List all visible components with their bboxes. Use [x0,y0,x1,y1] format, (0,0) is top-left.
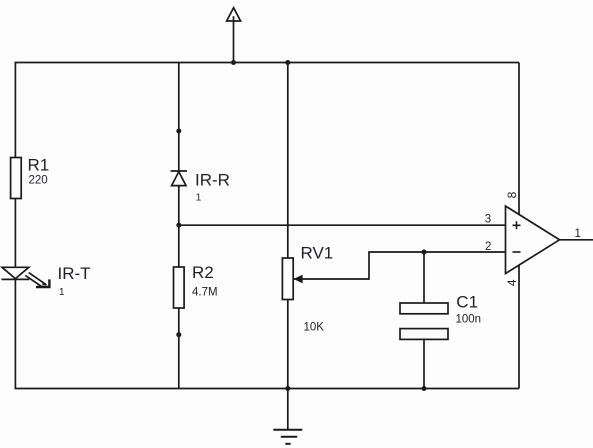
svg-text:C1: C1 [456,292,478,311]
junction dot noninverting node [176,223,181,228]
wire IR-R R2 branch [178,63,180,389]
wire RV1 ground branch [287,63,289,389]
op-amp minus sign [513,251,521,253]
svg-text:8: 8 [505,191,519,198]
svg-text:4: 4 [505,279,519,286]
op-amp U1 body [506,206,560,274]
junction dot ground bottom rail [285,386,290,391]
wire C1 bottom lead [423,339,425,389]
wire RV1 wiper horizontal [293,278,369,280]
potentiometer RV1 body [282,258,293,300]
svg-text:R1: R1 [28,155,50,174]
resistor R1 [11,158,22,199]
svg-text:3: 3 [485,214,491,226]
wire bottom rail [15,388,519,390]
resistor R2 [174,267,185,308]
svg-text:IR-T: IR-T [58,264,91,283]
wire noninverting input to pin 3 [179,224,506,226]
svg-text:1: 1 [59,287,65,298]
wire left rail [14,62,16,389]
LED IR-T emission arrow lower [25,275,41,286]
svg-text:R2: R2 [192,263,214,282]
ground bar 1 [273,429,302,431]
potentiometer RV1 wiper arrowhead [294,275,303,284]
svg-text:2: 2 [485,241,491,253]
capacitor C1 bottom plate [400,329,448,340]
op-amp plus sign [513,221,521,229]
svg-text:10K: 10K [304,322,325,334]
diode IR-R cathode bar [171,170,187,172]
wire C1 top lead [423,252,425,304]
capacitor C1 top plate [400,303,448,314]
junction dot C1 bottom rail [422,386,427,391]
junction dot inverting node [422,250,427,255]
svg-text:RV1: RV1 [301,244,334,263]
LED IR-T emission arrow lower head [42,281,47,285]
LED IR-T triangle [2,267,29,278]
LED IR-T cathode bar [2,278,30,280]
junction dot IR-R anode node [176,129,181,134]
wire output pin 1 [560,239,593,241]
wire top rail [15,62,519,64]
power symbol V+ arrow [227,8,241,21]
wire inverting input to pin 2 [368,251,505,253]
ground bar 3 [285,443,290,445]
svg-text:1: 1 [196,193,202,204]
svg-text:4.7M: 4.7M [192,286,218,298]
LED IR-T emission arrow upper head [36,279,49,287]
svg-text:220: 220 [29,175,48,187]
LED IR-T emission arrow upper [29,273,47,285]
ground bar 2 [281,436,297,438]
junction dot power top rail [231,60,236,65]
svg-text:IR-R: IR-R [195,170,230,189]
wire right rail pin8 to pin4 [518,63,520,389]
diode IR-R triangle [172,172,186,186]
junction dot RV1 branch top rail [285,60,290,65]
svg-text:1: 1 [575,228,581,240]
wire ground stem [287,389,289,430]
svg-text:100n: 100n [456,314,482,326]
junction dot R2 bottom node [176,332,181,337]
wire wiper riser [368,252,370,280]
wire power stem [233,16,235,62]
